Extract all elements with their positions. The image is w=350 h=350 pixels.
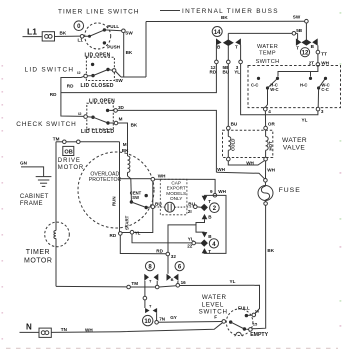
timer cam 4 number	[209, 239, 218, 248]
svg-text:YL: YL	[234, 70, 240, 75]
air dome symbol	[236, 332, 241, 335]
cam 2 contact B (triangle)	[202, 214, 208, 219]
svg-text:TM: TM	[131, 281, 138, 286]
svg-text:RUN: RUN	[112, 196, 117, 206]
cam box outline	[204, 195, 226, 253]
wire OR from water temp terminal 4	[264, 111, 266, 126]
svg-text:FRAME: FRAME	[20, 201, 43, 207]
terminal BU (cold)	[227, 126, 231, 130]
svg-text:YL: YL	[188, 237, 194, 242]
wire branch to node 32	[168, 225, 196, 252]
svg-text:3: 3	[321, 109, 324, 114]
terminal cold bottom	[227, 157, 231, 161]
svg-text:RD: RD	[210, 70, 217, 75]
water valve enclosure (dashed box)	[223, 130, 273, 157]
contact LID OPEN with terminal 3D	[106, 109, 109, 112]
wire 1M bus	[130, 286, 155, 288]
svg-text:SWITCH: SWITCH	[256, 59, 280, 65]
svg-text:SW: SW	[125, 30, 133, 35]
svg-text:15: 15	[253, 322, 258, 327]
svg-text:OR: OR	[268, 121, 276, 126]
switch arm to EMPTY	[231, 322, 245, 329]
svg-text:BK: BK	[122, 148, 129, 153]
svg-text:YL: YL	[302, 117, 308, 122]
svg-text:14: 14	[214, 30, 221, 36]
svg-text:BU: BU	[231, 121, 238, 126]
pole (common)	[229, 320, 232, 323]
svg-text:2I: 2I	[188, 209, 192, 214]
svg-text:4: 4	[268, 109, 271, 114]
wire hot lead down to fuse node	[265, 161, 267, 179]
svg-text:7N: 7N	[159, 317, 166, 322]
svg-text:YL: YL	[135, 231, 141, 236]
wire buss riser from lid switch output	[145, 22, 147, 78]
wire BU: terminal 5B down to water valve	[227, 64, 229, 127]
timer cam 10 number	[143, 315, 153, 325]
svg-text:HOT: HOT	[268, 141, 273, 151]
wire YL: terminal 3 down then right to water temp switch	[241, 64, 318, 115]
svg-text:CHECK SWITCH: CHECK SWITCH	[16, 121, 76, 128]
terminal SW on buss	[305, 19, 309, 23]
wire WH from 3D column to fuse	[216, 172, 265, 179]
coil HOT solenoid	[265, 130, 267, 137]
svg-text:LID CLOSED: LID CLOSED	[81, 83, 114, 89]
wire cam10 right leg	[156, 313, 158, 320]
terminal hot bottom	[264, 157, 268, 161]
terminal 32	[166, 252, 170, 256]
cam 14 follower diamond	[223, 39, 234, 46]
feed stub to right half	[310, 72, 312, 77]
svg-text:F: F	[214, 315, 217, 320]
contact FULL	[245, 314, 248, 317]
svg-text:FULL: FULL	[238, 305, 250, 310]
contact LID OPEN	[91, 63, 94, 66]
contact PUSH	[103, 41, 106, 44]
fuse top terminal	[264, 179, 268, 183]
svg-text:GY: GY	[170, 315, 177, 320]
svg-text:T: T	[296, 45, 299, 50]
scan border right dots	[340, 12, 342, 327]
scan border left dots	[2, 65, 4, 340]
svg-text:L1: L1	[27, 27, 37, 37]
cam 14 contact T (triangle)	[235, 38, 241, 45]
terminal SW (lid switch)	[112, 69, 116, 73]
wire lid switch output to riser	[115, 71, 121, 77]
scan border bottom	[6, 347, 338, 349]
water level switch body (dashed circle)	[226, 309, 253, 336]
cam 6 contacts (bowtie)	[167, 274, 172, 281]
cam 10 contacts (bowtie)	[145, 308, 150, 313]
svg-text:WATER: WATER	[282, 137, 307, 144]
contact H-C / W-C (left half)	[276, 77, 279, 80]
terminal BU (motor)	[151, 205, 155, 209]
contact LID CLOSED with terminal M	[106, 121, 109, 124]
switch arm L1 to PULL	[88, 35, 91, 38]
svg-text:LID OPEN: LID OPEN	[89, 98, 115, 104]
wire cam14 T to terminal 3	[240, 45, 242, 60]
terminal I2	[84, 74, 88, 78]
terminal cam8 right	[155, 285, 159, 289]
terminal YL (motor)	[130, 230, 134, 234]
contact PULL	[103, 28, 106, 31]
svg-text:C-C: C-C	[251, 83, 258, 88]
wire cam8 left leg	[144, 281, 146, 297]
svg-text:BK: BK	[267, 248, 274, 253]
terminal 22 YL	[192, 241, 196, 245]
cam 12 contact B (triangle)	[312, 38, 318, 45]
wire N lead-in	[20, 331, 40, 333]
svg-text:LID CLOSED: LID CLOSED	[81, 129, 114, 135]
timer motor coil	[54, 231, 56, 239]
wire TT to 2T	[317, 54, 319, 63]
svg-text:9: 9	[210, 189, 213, 194]
pole left half with arm	[266, 86, 269, 89]
timer cam 2 number	[210, 203, 220, 213]
fuse body	[264, 182, 266, 185]
terminal 15 (empty)	[249, 328, 253, 332]
terminal 9 WH	[213, 193, 217, 197]
terminal 16 (full)	[252, 313, 256, 317]
svg-text:DRIVE: DRIVE	[58, 158, 81, 164]
terminal 2I BU	[194, 205, 198, 209]
wire cam2 B to cam4 B (jog)	[196, 219, 205, 232]
wire GY to water level F	[158, 321, 222, 324]
svg-text:PULL: PULL	[107, 24, 119, 29]
ground (cabinet frame)	[36, 176, 52, 178]
svg-text:W-C: W-C	[270, 87, 278, 92]
terminal L1	[80, 35, 84, 39]
cam 2 contact T (triangle)	[202, 196, 208, 202]
svg-text:M: M	[119, 117, 123, 122]
contact LID CLOSED	[91, 74, 94, 77]
svg-text:WATER: WATER	[202, 294, 227, 301]
wire PULL to SW	[104, 29, 121, 32]
wire WH motor to cam box	[155, 179, 216, 193]
svg-text:WH: WH	[267, 168, 275, 173]
wire YL motor to terminal 22	[132, 234, 192, 243]
wire 5B link cam14 to cam12	[228, 32, 297, 34]
cam 12 follower diamond	[301, 39, 311, 45]
svg-text:3D: 3D	[118, 105, 125, 110]
svg-text:BU: BU	[155, 202, 162, 207]
cam 14 contact B (triangle)	[216, 38, 222, 45]
wire cam8 left to cam10	[143, 296, 147, 300]
terminal I2 (check switch)	[84, 115, 88, 119]
svg-text:BK: BK	[60, 31, 67, 36]
terminal WH (motor)	[151, 177, 155, 181]
terminal TT	[316, 50, 320, 54]
svg-text:EMPTY: EMPTY	[250, 332, 268, 338]
cam number 0	[74, 21, 84, 31]
svg-text:B: B	[171, 277, 174, 282]
svg-text:INTERNAL TIMER BUSS: INTERNAL TIMER BUSS	[182, 8, 278, 15]
svg-text:L1: L1	[78, 38, 84, 43]
svg-text:16: 16	[181, 280, 187, 285]
timer cam 6 number	[175, 262, 184, 271]
svg-text:RD: RD	[156, 248, 163, 253]
terminal 4	[264, 107, 268, 111]
svg-text:MOTOR: MOTOR	[58, 165, 84, 171]
wire pole to terminal 3	[317, 89, 319, 108]
wire YL to water level full	[180, 285, 260, 313]
wire valve common WH	[228, 161, 264, 165]
terminal 2T WH	[316, 63, 320, 67]
wire BK fuse to water level empty	[252, 205, 266, 328]
timer line switch body (dashed circle)	[85, 23, 111, 49]
wire 5B link to cam 12 T	[297, 33, 299, 39]
svg-text:WH: WH	[217, 167, 225, 172]
wire 3D to right column	[117, 110, 216, 172]
svg-text:10: 10	[144, 319, 151, 325]
svg-text:TEMP: TEMP	[259, 51, 276, 57]
svg-text:SW: SW	[115, 78, 123, 83]
timer cam 14 number	[212, 27, 222, 37]
svg-text:OB: OB	[64, 150, 72, 156]
svg-text:RD: RD	[67, 84, 74, 89]
svg-text:WH: WH	[321, 60, 329, 65]
svg-text:TIMER: TIMER	[26, 249, 50, 256]
check switch enclosure (dashed box)	[87, 103, 114, 129]
wire timer motor column	[55, 142, 57, 231]
connector CO (N plug)	[39, 328, 51, 337]
terminal F	[222, 320, 226, 324]
svg-text:WH: WH	[85, 327, 93, 332]
terminal RD (motor)	[119, 232, 123, 236]
svg-text:TIMER LINE SWITCH: TIMER LINE SWITCH	[58, 9, 139, 16]
svg-text:WATER: WATER	[257, 44, 278, 50]
svg-text:CABINET: CABINET	[20, 194, 49, 200]
cam 8 contacts (bowtie)	[144, 274, 149, 281]
svg-text:C-C: C-C	[321, 87, 328, 92]
cam 2 follower diamond	[201, 204, 208, 211]
timer cam 8 number	[145, 262, 154, 271]
svg-text:LEVEL: LEVEL	[202, 301, 224, 308]
svg-text:N: N	[26, 323, 32, 332]
terminal SW	[122, 29, 126, 33]
contact EMPTY	[243, 327, 246, 330]
svg-text:TN: TN	[61, 327, 68, 332]
terminal 3 YL	[239, 60, 243, 64]
terminal 12 RD	[215, 60, 219, 64]
svg-text:BU: BU	[188, 202, 195, 207]
svg-text:YL: YL	[230, 279, 236, 284]
connector OB	[63, 146, 74, 155]
svg-text:ONLY: ONLY	[170, 196, 183, 201]
timer cam 12 number	[300, 48, 309, 57]
wire cam14 diamond to terminal 5B	[227, 46, 229, 61]
svg-text:START: START	[125, 215, 130, 230]
svg-text:T: T	[235, 45, 238, 50]
svg-text:16: 16	[255, 309, 260, 314]
pole right half with arm	[317, 86, 320, 89]
svg-text:VALVE: VALVE	[283, 145, 305, 152]
svg-text:RD: RD	[110, 233, 117, 238]
svg-text:RD: RD	[50, 92, 57, 97]
switch arm I2 to SW	[87, 70, 108, 76]
coil COLD solenoid	[227, 130, 229, 137]
svg-text:WH: WH	[158, 173, 166, 178]
svg-text:TT: TT	[321, 51, 327, 56]
cap export dashed outline	[160, 179, 187, 215]
svg-text:BK: BK	[221, 15, 228, 20]
svg-text:H-C: H-C	[300, 83, 307, 88]
lid switch enclosure (dashed box)	[86, 57, 114, 80]
wire BK to timer line switch	[55, 35, 81, 37]
svg-text:SW: SW	[293, 15, 301, 20]
terminal 5B BU	[227, 60, 231, 64]
wire SW down to cam 12	[305, 23, 307, 40]
svg-text:T: T	[208, 199, 211, 204]
terminal 3	[316, 107, 320, 111]
svg-text:SWITCH: SWITCH	[199, 309, 228, 316]
wire RD from I2 to check switch pole	[61, 76, 84, 116]
water temp switch enclosure (dashed box)	[248, 66, 341, 108]
svg-text:TM: TM	[53, 136, 60, 141]
wire node32 to cam 6	[167, 256, 169, 274]
svg-text:LID OPEN: LID OPEN	[85, 53, 111, 59]
wire pole to terminal 4	[265, 89, 267, 108]
capacitor (export models, dashed leads)	[155, 206, 165, 208]
terminal 1M	[127, 285, 131, 289]
wire internal timer buss	[146, 20, 305, 22]
svg-text:SW: SW	[132, 195, 139, 200]
wire cam14 B to terminal 12	[215, 45, 217, 60]
svg-text:2T: 2T	[309, 60, 315, 65]
cam 12 contact T (triangle)	[296, 38, 302, 45]
svg-text:GN: GN	[20, 160, 28, 165]
label leader: INTERNAL TIMER BUSS	[160, 10, 180, 12]
svg-text:32: 32	[171, 254, 177, 259]
svg-text:12: 12	[302, 51, 309, 57]
wire cam8 right leg	[156, 281, 158, 285]
terminal OR (hot)	[264, 126, 268, 130]
svg-text:LID SWITCH: LID SWITCH	[25, 67, 74, 74]
terminal 7N	[155, 321, 159, 325]
wire TN WH to water level F	[51, 323, 222, 333]
wire to 1M	[56, 285, 127, 288]
svg-text:5B: 5B	[296, 28, 303, 33]
drive motor body (dashed circle)	[78, 152, 154, 228]
overload protector heater coil	[128, 156, 130, 172]
svg-text:COLD: COLD	[231, 139, 236, 151]
connector CO (L1 plug)	[42, 32, 54, 41]
contact H-C (right half)	[309, 77, 312, 80]
svg-text:WH: WH	[246, 160, 254, 165]
wire feed from 2T into switch	[278, 66, 318, 76]
svg-text:FUSE: FUSE	[279, 187, 301, 194]
svg-text:BK: BK	[131, 123, 138, 128]
cam 4 contact B (triangle)	[202, 232, 208, 237]
svg-text:BK: BK	[126, 50, 133, 55]
svg-text:WH: WH	[218, 189, 226, 194]
wire cam6 right leg to terminal 16	[177, 281, 179, 284]
motor winding box	[120, 179, 153, 233]
switch arm to LID CLOSED	[91, 116, 94, 119]
wire BK from M down to motor	[118, 123, 128, 156]
wire BK down from SW	[123, 33, 125, 77]
svg-text:M: M	[123, 142, 127, 147]
svg-text:MOTOR: MOTOR	[24, 258, 52, 265]
fuse bottom terminal	[264, 202, 268, 206]
wire cam12 B down	[317, 45, 319, 50]
svg-text:PUSH: PUSH	[107, 44, 120, 49]
svg-text:PROTECTOR: PROTECTOR	[89, 177, 122, 183]
cam 4 follower diamond	[201, 239, 208, 246]
svg-text:22: 22	[187, 243, 193, 248]
svg-text:T: T	[208, 249, 211, 254]
wire cent sw feed	[130, 179, 133, 201]
timer motor body (dashed circle)	[45, 222, 70, 247]
contact C-C (left half)	[257, 77, 260, 80]
terminal 5B (junction circle)	[292, 32, 296, 36]
wire L1 lead-in	[23, 36, 43, 38]
contact W-C / C-C (right half)	[324, 77, 327, 80]
cam 4 contact T (triangle)	[202, 248, 208, 253]
wire TM to motor box	[119, 142, 121, 179]
wire RD: terminal 12 down and left to lid switches	[61, 64, 217, 93]
wire RD motor to terminal 32	[120, 235, 166, 254]
